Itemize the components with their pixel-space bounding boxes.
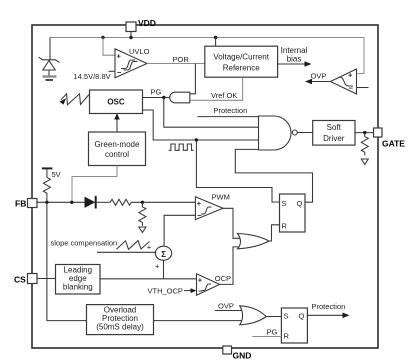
svg-text:Q: Q [299, 312, 305, 321]
op-amp OVP comparator (left-facing) [330, 69, 356, 94]
op-amp UVLO comparator [115, 49, 147, 78]
gate NAND U2 [259, 116, 292, 150]
diode D2 [85, 197, 96, 208]
wire Protection output arrow [307, 314, 346, 316]
clock waveform symbol [169, 144, 194, 150]
svg-text:+: + [197, 199, 202, 208]
5V supply bar [42, 167, 53, 169]
zener diode D1 [39, 57, 60, 63]
wire LEB to OCP [100, 278, 197, 280]
svg-text:OSC: OSC [107, 98, 125, 107]
wire driver to GATE [355, 132, 374, 134]
wire OR2 to S input [266, 316, 281, 318]
resistor R_fb pullup [43, 168, 50, 201]
wire Protection input [198, 116, 259, 118]
node UVLO branch junction [101, 36, 104, 39]
wire zener drop [49, 38, 51, 60]
wire UVLO - stub [109, 70, 116, 72]
resistor R_gate [361, 133, 368, 156]
wire PWM out to OR1 [223, 208, 241, 238]
wire CS to LEB [37, 278, 56, 280]
ground [43, 75, 57, 77]
wire PWM - input from sum [164, 215, 195, 246]
svg-text:−: − [349, 84, 354, 93]
block U1 Voltage/Current Reference [205, 46, 278, 77]
op-amp PWM comparator [195, 197, 223, 220]
svg-text:FB: FB [15, 199, 26, 209]
wire UVLO + input feed [103, 38, 115, 56]
svg-text:slope compensation: slope compensation [51, 239, 118, 248]
svg-text:S: S [282, 199, 287, 208]
node VRef feed junction [214, 36, 217, 39]
wire PG to R input [252, 336, 281, 338]
block Soft Driver [313, 121, 355, 146]
block OSC [90, 90, 143, 114]
wire PG to OSC [143, 97, 170, 99]
gate OR2 [240, 306, 267, 325]
svg-text:S: S [284, 312, 289, 321]
svg-text:VTH_OCP: VTH_OCP [148, 287, 183, 296]
op-amp OCP comparator [197, 274, 220, 295]
svg-text:(50mS delay): (50mS delay) [96, 323, 144, 332]
svg-text:bias: bias [287, 55, 302, 64]
svg-text:Driver: Driver [323, 134, 345, 143]
pin VDD [126, 22, 136, 32]
sawtooth symbol at OSC [61, 94, 89, 105]
wire POR [147, 63, 205, 65]
svg-text:POR: POR [173, 55, 190, 64]
wire sum bottom input [163, 261, 165, 279]
flip-flop FF2 [281, 308, 307, 343]
pin FB [28, 199, 38, 208]
svg-text:+: + [348, 71, 353, 80]
svg-text:Voltage/Current: Voltage/Current [213, 53, 269, 62]
block Green-mode control [89, 132, 146, 166]
wire GMC to FB node [72, 166, 117, 203]
svg-text:PWM: PWM [212, 193, 230, 202]
svg-text:CS: CS [14, 275, 26, 285]
node FB green junction [70, 201, 73, 204]
wire OVP output arrow [308, 81, 330, 83]
svg-text:GATE: GATE [382, 139, 405, 149]
wire OCP out to OR1 [220, 247, 241, 285]
svg-text:OVP: OVP [311, 72, 327, 81]
flip-flop FF1 [280, 194, 306, 232]
gate AND PG (left-facing) [170, 92, 190, 103]
svg-text:R: R [282, 222, 288, 231]
pin CS [28, 274, 38, 284]
svg-text:PG: PG [267, 328, 278, 337]
pin GATE [374, 128, 383, 137]
svg-text:Vref OK: Vref OK [211, 91, 237, 100]
svg-text:14.5V/8.8V: 14.5V/8.8V [74, 72, 111, 81]
svg-text:PG: PG [151, 88, 162, 97]
slope compensation sawtooth [116, 241, 149, 250]
svg-text:Reference: Reference [223, 64, 260, 73]
wire Vref OK [190, 77, 243, 100]
svg-text:Σ: Σ [161, 250, 166, 259]
resistor R2 series [110, 199, 131, 205]
svg-text:−: − [117, 68, 122, 77]
node PG junction [162, 96, 165, 99]
block Overload Protection [87, 305, 154, 335]
wire OVP - stub [357, 87, 369, 89]
wire PG to NAND [164, 98, 259, 128]
internal bias arrow [278, 63, 308, 65]
wire VRef top feed [215, 38, 217, 47]
svg-text:−: − [197, 211, 202, 220]
svg-text:+: + [198, 275, 203, 284]
svg-text:R: R [284, 332, 290, 341]
svg-text:VDD: VDD [138, 18, 156, 28]
svg-text:Green-mode: Green-mode [95, 140, 140, 149]
svg-text:Protection: Protection [214, 106, 248, 115]
arrow GMC to OSC [116, 116, 118, 132]
wire FB line [37, 201, 85, 203]
IC boundary [32, 25, 378, 348]
node gate resistor junction [363, 131, 366, 134]
svg-text:control: control [105, 150, 129, 159]
svg-text:UVLO: UVLO [129, 47, 150, 56]
wire NAND feedback input [235, 149, 312, 202]
svg-text:+: + [117, 52, 122, 61]
block Leading edge blanking [56, 265, 101, 295]
svg-text:GND: GND [233, 351, 252, 361]
svg-text:Q: Q [297, 199, 303, 208]
pin GND [223, 346, 232, 354]
node divider junction [141, 201, 144, 204]
svg-text:blanking: blanking [63, 283, 93, 292]
wire VDD pin drop [130, 31, 132, 38]
summing node S1 [155, 246, 171, 260]
svg-text:5V: 5V [52, 170, 61, 179]
node FB pullup junction [45, 201, 48, 204]
wire OVP to OR2 [215, 310, 243, 312]
svg-text:Soft: Soft [327, 123, 342, 132]
wire OSC clock out [143, 110, 259, 140]
wire VDD rail [50, 38, 364, 74]
resistor R3 down [139, 202, 146, 226]
wire NAND out to Soft Driver [297, 132, 312, 134]
wire POR to AND gate [190, 64, 196, 94]
wire FB to OLP [47, 202, 87, 320]
svg-text:OCP: OCP [215, 274, 231, 283]
gate OR1 [238, 234, 270, 249]
wire OR1 to R input [269, 225, 280, 241]
wire clock to S input [196, 140, 279, 202]
svg-text:Protection: Protection [312, 302, 346, 311]
node clock junction [195, 138, 198, 141]
svg-text:+: + [155, 262, 160, 271]
node VDD rail junction [129, 36, 132, 39]
wire OLP out to OR2 [154, 320, 243, 322]
svg-text:OVP: OVP [218, 302, 234, 311]
